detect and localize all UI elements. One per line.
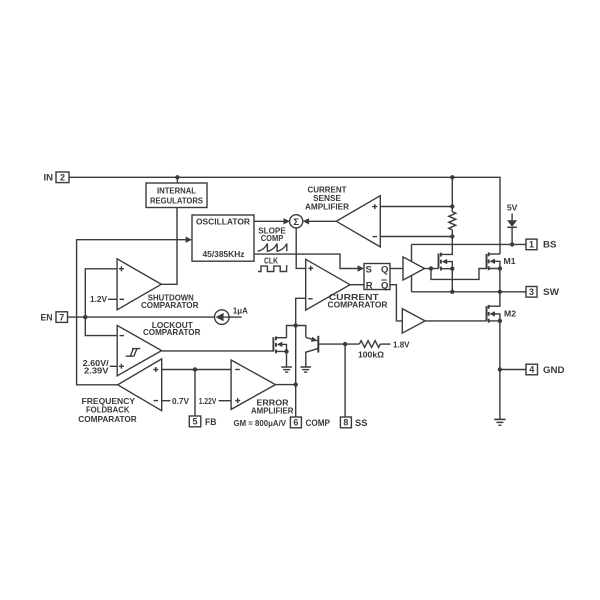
wire 0.7V stub to FFC - input (162, 400, 171, 402)
wire internal regulators feed from IN rail (176, 177, 178, 183)
buffer upper gate driver (403, 257, 425, 280)
node SW wire / M1-M2 (498, 290, 502, 294)
wire 1.22V stub to error amp + input (219, 400, 232, 402)
label slope comp (258, 227, 286, 243)
label current comparator (328, 293, 388, 310)
ground under clamp FET (281, 367, 292, 372)
wire frequency foldback output to oscillator input (77, 240, 191, 385)
wire M1 drain lead (489, 253, 500, 255)
node COMP clamp (294, 323, 298, 327)
resistor R sense (vertical zigzag) (449, 212, 456, 230)
op-amp lockout comparator (117, 325, 161, 375)
buffer lower gate driver (402, 309, 425, 333)
waveform slope comp sawtooth (258, 244, 287, 252)
svg-text:M2: M2 (504, 310, 516, 319)
svg-text:Σ: Σ (293, 217, 299, 228)
wire CSA output to sigma (309, 220, 336, 222)
wire COMP clamp node left branch to clamp FET drain (287, 326, 296, 338)
wire internal regulators bottom to shutdown comparator output (161, 208, 177, 285)
svg-text:INTERNAL: INTERNAL (157, 187, 196, 196)
svg-text:SS: SS (355, 418, 368, 429)
node sense resistor bottom (450, 234, 454, 238)
wire oscillator CLK output to latch S input (254, 254, 358, 268)
transistor sense FET (unlabeled) (439, 253, 448, 271)
node diode / BS wire (510, 242, 514, 246)
svg-text:7: 7 (59, 312, 64, 322)
svg-text:Q: Q (381, 264, 388, 275)
svg-text:IN: IN (44, 173, 54, 184)
label value 2.60V/ 2.39V (83, 359, 110, 375)
shutdown comparator - input mark (120, 298, 125, 300)
diode D1 5V bootstrap (507, 220, 517, 227)
svg-text:4: 4 (529, 365, 534, 375)
svg-text:COMPARATOR: COMPARATOR (143, 328, 201, 337)
svg-text:M1: M1 (504, 257, 516, 266)
wire clamp FET drain lead (276, 337, 287, 339)
wire upper driver output node (425, 268, 439, 270)
node IN rail / internal regulators (175, 175, 179, 179)
block oscillator 45/385KHz (192, 215, 254, 261)
resistor 100k (horizontal zigzag) (359, 341, 380, 348)
op-amp frequency foldback comparator (118, 359, 162, 411)
current comparator + input mark (308, 266, 313, 271)
wire M2 source down to GND node (489, 321, 500, 370)
wire 5V diode cathode to BS wire (511, 227, 513, 244)
wire 5V diode anode lead (511, 213, 513, 220)
wire SW net to pin 3 (412, 291, 527, 293)
block internal regulators (146, 183, 207, 208)
node FB (193, 367, 197, 371)
CSA - input mark (373, 236, 378, 238)
svg-text:0.7V: 0.7V (172, 397, 190, 406)
label current sense amplifier (305, 186, 349, 212)
wire M2 body lead (495, 314, 500, 321)
shutdown comparator + input mark (119, 266, 124, 271)
lockout comparator + input mark (119, 364, 124, 369)
node M1 source (498, 266, 502, 270)
wire clamp FET body lead (282, 344, 287, 351)
wire sense FET drain up to - sense node (441, 237, 452, 255)
error amp - input mark (235, 369, 240, 371)
error amp + input mark (235, 398, 240, 403)
node sense resistor top (450, 204, 454, 208)
svg-text:COMPARATOR: COMPARATOR (141, 301, 199, 310)
wire sense FET source to SW wire (441, 269, 452, 292)
svg-text:1.22V: 1.22V (199, 397, 217, 406)
transistor M1 high-side MOSFET (487, 252, 496, 270)
svg-text:5V: 5V (507, 204, 518, 213)
wire FB node down to FB pin 5 (194, 370, 196, 417)
wire COMP clamp node right branch to PNP emitter (296, 326, 306, 338)
wire sense resistor bottom lead (451, 230, 453, 237)
label shutdown comparator (141, 294, 199, 310)
arrow oscillator to sigma (284, 218, 290, 224)
svg-text:1: 1 (529, 240, 534, 250)
op-amp error amplifier (231, 360, 275, 409)
arrow CSA to sigma (303, 218, 309, 224)
svg-text:5: 5 (192, 417, 197, 427)
lockout comparator - input mark (120, 335, 125, 337)
current comparator - input mark (308, 298, 313, 300)
wire error amp output to COMP node (276, 384, 296, 386)
svg-text:100kΩ: 100kΩ (358, 350, 384, 359)
ground main (below M2) (494, 419, 505, 425)
wire BS net to pin 1 (412, 243, 527, 245)
svg-text:REGULATORS: REGULATORS (150, 196, 203, 205)
transistor Q1 PNP soft-start (311, 336, 318, 353)
svg-text:COMP: COMP (261, 234, 284, 243)
summing node sigma (290, 215, 303, 228)
wire current comparator output to latch R input (350, 284, 364, 286)
svg-text:3: 3 (529, 287, 534, 297)
arrow into oscillator (foldback) (186, 237, 192, 243)
pin 1 BS (526, 239, 557, 251)
op-amp current comparator (306, 259, 350, 310)
wire lockout comparator output to clamp FET gate (162, 350, 274, 352)
ground under PNP (300, 367, 311, 372)
node sense FET source (450, 267, 454, 271)
node M2 source (498, 319, 502, 323)
wire GND node down to ground (499, 370, 501, 420)
pin 4 GND (526, 364, 565, 376)
pin 6 COMP (290, 417, 330, 429)
arrow CLK to latch S (358, 265, 364, 271)
wire oscillator slope output to sigma (254, 220, 284, 222)
wire GND node to pin 4 (500, 369, 526, 371)
wire sense FET body lead (447, 262, 453, 269)
pin 7 EN (41, 312, 68, 324)
svg-text:BS: BS (543, 240, 557, 251)
wire 2.60V/2.39V stub to lockout + input (110, 365, 118, 367)
wire EN pin to 1uA current source (68, 316, 215, 318)
wire FFC + input / FB node / error amp - input (162, 369, 231, 371)
svg-text:45/385KHz: 45/385KHz (203, 250, 245, 259)
wire driver node around to M1 gate (431, 269, 487, 280)
label lockout comparator (143, 321, 201, 337)
wire latch Qbar output to lower driver (390, 285, 402, 321)
node GND (498, 367, 502, 371)
wire 1uA source output stub (229, 316, 242, 318)
wire lower driver output to M2 gate (425, 320, 486, 322)
op-amp current sense amplifier (336, 196, 380, 247)
svg-text:COMP: COMP (306, 418, 331, 429)
wire resistor to 1.8V label (380, 343, 390, 345)
current source 1uA (215, 310, 230, 325)
svg-text:SW: SW (543, 287, 559, 298)
svg-text:COMPARATOR: COMPARATOR (78, 415, 137, 424)
wire M1 body lead (495, 261, 500, 268)
svg-text:AMPLIFIER: AMPLIFIER (305, 203, 349, 212)
node driver output (429, 266, 433, 270)
wire COMP vertical line to current comparator - input and COMP pin 6 (296, 298, 306, 417)
svg-text:S: S (366, 264, 372, 275)
svg-text:2.39V: 2.39V (84, 366, 109, 375)
wire BS-SW rail behind upper driver (411, 244, 413, 291)
wire sigma output down to current comparator + input (296, 228, 306, 269)
svg-text:FB: FB (205, 417, 217, 428)
svg-text:COMPARATOR: COMPARATOR (328, 301, 388, 310)
wire sense resistor top lead from IN rail (451, 177, 453, 212)
pin 8 SS (340, 417, 367, 429)
transistor clamp FET (soft-start clamp) (273, 336, 282, 353)
FFC - input mark (154, 400, 159, 402)
pin 2 IN (44, 172, 70, 184)
svg-text:2: 2 (60, 173, 65, 183)
wire EN branch to shutdown + and lockout - inputs (85, 269, 117, 336)
node error amp output / COMP (294, 382, 298, 386)
wire PNP collector to ground (306, 348, 319, 367)
latch U-SR (S R Q Qbar) (364, 264, 390, 292)
CSA + input mark (372, 204, 377, 209)
svg-text:FREQUENCY: FREQUENCY (82, 397, 136, 406)
svg-text:1μA: 1μA (233, 307, 248, 316)
wire PNP base to SS node and resistor (318, 343, 359, 345)
node EN branch (83, 315, 87, 319)
svg-text:6: 6 (293, 418, 298, 428)
op-amp shutdown comparator (117, 259, 161, 310)
pin 5 FB (189, 416, 216, 428)
wire latch Q output to upper driver (390, 268, 403, 270)
wire SS node down to SS pin 8 (344, 344, 346, 417)
svg-text:EN: EN (41, 312, 53, 323)
pin 3 SW (526, 287, 559, 299)
node IN rail / sense resistor (450, 175, 454, 179)
wire M1 source to SW wire (489, 269, 500, 292)
label error amplifier (251, 398, 294, 415)
wire current sense amp - input to sense resistor bottom (380, 236, 452, 238)
wire PNP emitter diagonal (306, 337, 313, 339)
svg-text:R: R (366, 280, 373, 291)
wire M2 drain lead from SW (489, 292, 500, 306)
transistor M2 low-side MOSFET (487, 305, 496, 323)
svg-text:FOLDBACK: FOLDBACK (86, 406, 130, 415)
wire clamp FET source to ground (276, 351, 287, 367)
waveform CLK square wave (258, 266, 288, 271)
svg-text:OSCILLATOR: OSCILLATOR (196, 218, 250, 227)
wire current sense amp + input to sense resistor top (380, 206, 452, 208)
svg-text:Q: Q (381, 280, 388, 291)
svg-text:GND: GND (543, 365, 565, 376)
svg-text:AMPLIFIER: AMPLIFIER (251, 406, 294, 415)
svg-text:1.8V: 1.8V (393, 341, 410, 350)
node SS (343, 342, 347, 346)
node sense line / SW wire (450, 290, 454, 294)
wire IN rail from pin 2 to top-right corner, down to M1 drain (69, 177, 500, 254)
wire 1.2V stub to shutdown - input (108, 298, 117, 300)
svg-text:CLK: CLK (264, 256, 278, 265)
FFC + input mark (153, 367, 158, 372)
label frequency foldback comparator (78, 397, 137, 424)
hysteresis symbol in lockout comparator (126, 349, 141, 357)
node clamp FET source (284, 349, 288, 353)
svg-text:1.2V: 1.2V (90, 295, 108, 304)
svg-text:GM = 800μA/V: GM = 800μA/V (234, 419, 287, 428)
svg-text:8: 8 (343, 418, 348, 428)
